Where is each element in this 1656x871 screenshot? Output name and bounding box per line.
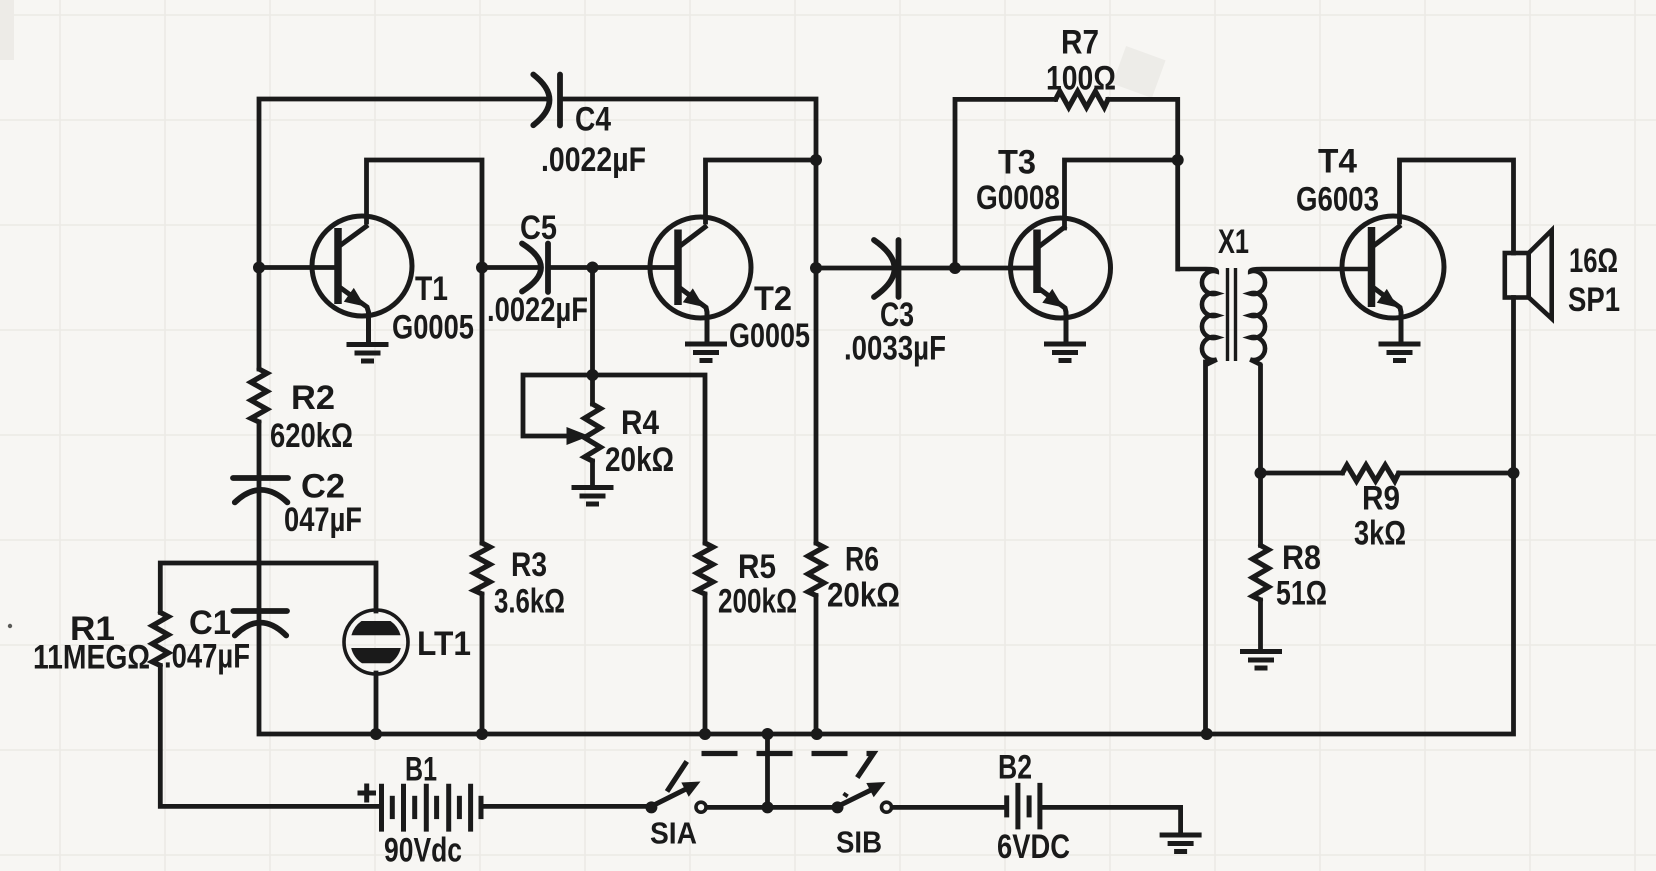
svg-text:R2: R2 [291, 379, 335, 417]
svg-text:R8: R8 [1282, 539, 1321, 577]
svg-text:C4: C4 [575, 101, 611, 139]
svg-text:C3: C3 [880, 296, 914, 334]
svg-text:20kΩ: 20kΩ [827, 577, 900, 615]
svg-text:SP1: SP1 [1568, 281, 1620, 319]
svg-text:T1: T1 [415, 270, 448, 308]
svg-text:SIB: SIB [836, 825, 882, 860]
svg-text:C2: C2 [301, 468, 345, 506]
svg-text:.047µF: .047µF [164, 638, 250, 676]
svg-text:R5: R5 [738, 548, 776, 586]
svg-text:R3: R3 [511, 546, 547, 584]
svg-text:T4: T4 [1318, 143, 1357, 181]
svg-text:20kΩ: 20kΩ [605, 441, 674, 479]
svg-text:R6: R6 [845, 541, 879, 579]
svg-text:200kΩ: 200kΩ [718, 583, 797, 621]
svg-text:G0008: G0008 [976, 179, 1060, 217]
svg-text:G0005: G0005 [392, 309, 474, 347]
svg-text:620kΩ: 620kΩ [270, 417, 353, 455]
svg-text:LT1: LT1 [417, 625, 471, 663]
svg-text:R7: R7 [1061, 24, 1099, 62]
svg-text:C1: C1 [189, 604, 231, 642]
svg-text:90Vdc: 90Vdc [384, 832, 462, 870]
svg-text:.0022µF: .0022µF [541, 141, 646, 179]
svg-text:11MEGΩ: 11MEGΩ [33, 639, 150, 677]
svg-text:16Ω: 16Ω [1569, 242, 1618, 280]
svg-text:3kΩ: 3kΩ [1354, 515, 1406, 553]
svg-text:T3: T3 [998, 144, 1036, 182]
svg-text:SIA: SIA [650, 816, 697, 851]
svg-text:C5: C5 [520, 209, 557, 247]
svg-text:B1: B1 [405, 751, 437, 789]
svg-text:100Ω: 100Ω [1046, 60, 1116, 98]
svg-text:G6003: G6003 [1296, 181, 1379, 219]
svg-text:3.6kΩ: 3.6kΩ [494, 583, 565, 621]
svg-text:T2: T2 [754, 280, 792, 318]
svg-text:B2: B2 [998, 749, 1032, 787]
svg-text:X1: X1 [1218, 223, 1249, 261]
svg-text:.0022µF: .0022µF [487, 291, 588, 329]
svg-text:G0005: G0005 [729, 317, 810, 355]
svg-text:047µF: 047µF [284, 501, 362, 539]
svg-text:.0033µF: .0033µF [844, 330, 946, 368]
svg-text:R9: R9 [1362, 480, 1400, 518]
svg-text:6VDC: 6VDC [997, 828, 1070, 866]
svg-text:51Ω: 51Ω [1276, 575, 1327, 613]
svg-text:R4: R4 [621, 404, 659, 442]
